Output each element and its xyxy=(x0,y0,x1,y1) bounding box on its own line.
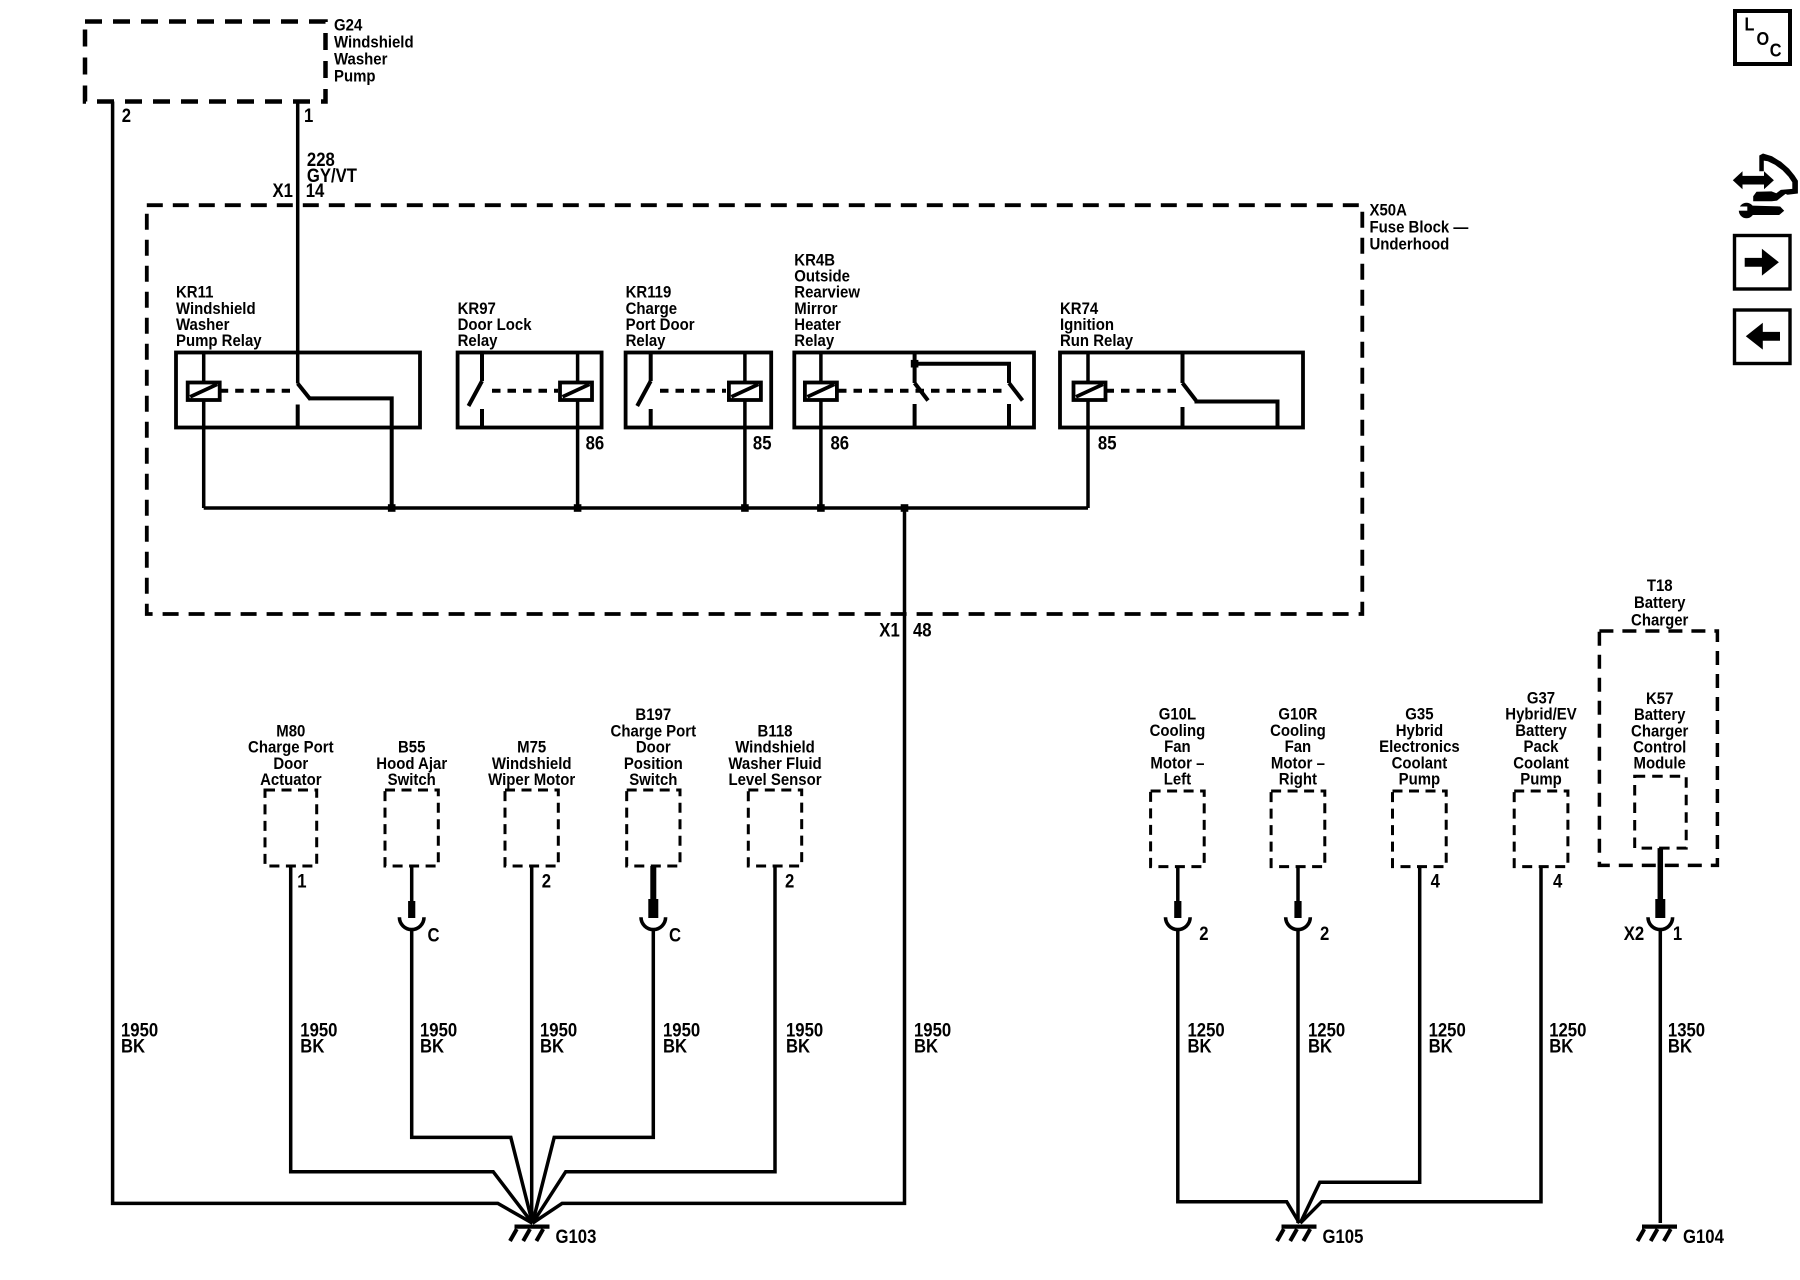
wire K57 to inline connector (heavy) xyxy=(1658,848,1664,901)
svg-text:BK: BK xyxy=(300,1036,324,1057)
svg-text:X2: X2 xyxy=(1624,923,1644,944)
svg-text:Relay: Relay xyxy=(626,332,666,350)
svg-text:Pump Relay: Pump Relay xyxy=(176,332,262,350)
svg-text:14: 14 xyxy=(306,180,325,201)
wire G24 pin1 to KR11 switch, circuit 228 GY/VT xyxy=(296,102,300,384)
svg-text:2: 2 xyxy=(122,105,131,126)
component G10L Cooling Fan Motor Left xyxy=(1150,706,1206,867)
svg-text:C: C xyxy=(428,925,440,946)
svg-text:48: 48 xyxy=(913,619,932,640)
relay KR11 Windshield Washer Pump Relay xyxy=(176,284,420,428)
svg-text:1: 1 xyxy=(297,871,306,892)
label 1250 BK (G10R wire) xyxy=(1308,1019,1345,1056)
svg-text:Battery: Battery xyxy=(1634,594,1686,612)
component G35 Hybrid Electronics Coolant Pump xyxy=(1379,706,1460,867)
wire B55 to inline connector xyxy=(410,866,414,901)
component G10R Cooling Fan Motor Right xyxy=(1270,706,1326,867)
wire KR11 coil pin to ground bus xyxy=(202,353,206,509)
component K57 Battery Charger Control Module (dashed box) xyxy=(1631,690,1688,848)
inline connector C of B55 xyxy=(399,901,439,946)
svg-text:Switch: Switch xyxy=(388,771,436,789)
wire B197 connector to G103 ground (1950 BK) xyxy=(533,931,654,1223)
wire G10L connector to G105 ground (1250 BK) xyxy=(1178,931,1300,1223)
svg-text:G105: G105 xyxy=(1323,1226,1364,1247)
wire K57 connector to G104 ground (1350 BK) xyxy=(1659,931,1663,1223)
svg-text:O: O xyxy=(1757,28,1770,49)
wire KR11 switch output to ground bus xyxy=(309,398,392,508)
connector X1 pin 14 xyxy=(273,180,325,201)
fuse block X50A Underhood (dashed box) xyxy=(147,205,1363,614)
svg-text:BK: BK xyxy=(1308,1036,1332,1057)
svg-text:BK: BK xyxy=(1549,1036,1573,1057)
svg-text:X1: X1 xyxy=(879,619,899,640)
component G37 Hybrid/EV Battery Pack Coolant Pump xyxy=(1505,690,1577,867)
ground G104 xyxy=(1638,1226,1724,1247)
svg-text:Left: Left xyxy=(1164,771,1192,789)
svg-text:Windshield: Windshield xyxy=(334,34,414,52)
wire KR97 pin 86 to ground bus xyxy=(576,353,580,509)
svg-text:T18: T18 xyxy=(1647,577,1673,595)
wire B118 to G103 ground (1950 BK) xyxy=(533,866,776,1223)
svg-text:Relay: Relay xyxy=(458,332,498,350)
wire KR74 pin 85 to ground bus xyxy=(1086,353,1090,509)
ground G105 xyxy=(1277,1226,1363,1247)
svg-text:BK: BK xyxy=(1429,1036,1453,1057)
svg-text:2: 2 xyxy=(1199,923,1208,944)
wire B55 connector to G103 ground (1950 BK) xyxy=(412,931,533,1223)
label 1950 BK (X1-48 wire) xyxy=(914,1019,951,1056)
junction dot KR11 output xyxy=(388,504,396,512)
label 1350 BK (K57 wire) xyxy=(1668,1019,1705,1056)
svg-text:Switch: Switch xyxy=(629,771,677,789)
component B118 Windshield Washer Fluid Level Sensor xyxy=(728,723,821,866)
wire G35 to G105 ground (1250 BK) xyxy=(1300,867,1419,1223)
svg-text:Relay: Relay xyxy=(794,332,834,350)
svg-text:Pump: Pump xyxy=(1520,771,1562,789)
svg-text:86: 86 xyxy=(831,432,850,453)
svg-text:BK: BK xyxy=(121,1036,145,1057)
svg-text:4: 4 xyxy=(1431,871,1440,892)
svg-text:Run Relay: Run Relay xyxy=(1060,332,1133,350)
wire G10R connector to G105 ground (1250 BK) xyxy=(1296,931,1300,1223)
label 1950 BK (B118 wire) xyxy=(786,1019,823,1056)
component T18 Battery Charger (dashed box) xyxy=(1599,577,1717,865)
relay KR97 Door Lock Relay xyxy=(458,300,602,428)
svg-text:BK: BK xyxy=(786,1036,810,1057)
wire G10R to inline connector xyxy=(1296,867,1300,901)
icon navigate arrows and wrench xyxy=(1733,154,1798,219)
svg-text:BK: BK xyxy=(1668,1036,1692,1057)
icon arrow-left box xyxy=(1735,310,1791,364)
label G24 xyxy=(334,17,414,86)
svg-text:BK: BK xyxy=(420,1036,444,1057)
svg-text:C: C xyxy=(669,925,681,946)
junction dot X1-48 feed xyxy=(901,504,909,512)
wire ground bus inside fuse block xyxy=(204,506,1088,510)
svg-text:L: L xyxy=(1745,14,1755,35)
svg-text:1: 1 xyxy=(1673,923,1682,944)
svg-text:4: 4 xyxy=(1553,871,1562,892)
svg-text:Underhood: Underhood xyxy=(1370,236,1450,254)
svg-text:Pump: Pump xyxy=(334,68,376,86)
relay KR119 Charge Port Door Relay xyxy=(626,284,772,428)
wire M75 to G103 ground (1950 BK) xyxy=(530,866,534,1223)
inline connector pin 2 of G10R xyxy=(1286,901,1330,944)
wire X1-48 to G103 ground (1950 BK) xyxy=(533,508,905,1223)
svg-text:BK: BK xyxy=(914,1036,938,1057)
svg-text:G104: G104 xyxy=(1683,1226,1724,1247)
ground G103 xyxy=(510,1226,596,1247)
svg-text:Level Sensor: Level Sensor xyxy=(728,771,821,789)
svg-text:Wiper Motor: Wiper Motor xyxy=(488,771,575,789)
label 228 GY/VT xyxy=(307,149,357,186)
svg-text:Right: Right xyxy=(1279,771,1318,789)
svg-text:G24: G24 xyxy=(334,17,362,35)
svg-text:X50A: X50A xyxy=(1370,202,1408,220)
svg-text:86: 86 xyxy=(586,432,605,453)
relay KR74 Ignition Run Relay xyxy=(1060,300,1303,428)
label 1250 BK (G37 wire) xyxy=(1549,1019,1586,1056)
label 1950 BK (M75 wire) xyxy=(540,1019,577,1056)
wire KR119 pin 85 to ground bus xyxy=(743,353,747,509)
label X50A Fuse Block Underhood xyxy=(1370,202,1469,254)
component B197 Charge Port Door Position Switch xyxy=(611,706,697,866)
svg-text:85: 85 xyxy=(753,432,772,453)
label 1950 BK (B55 wire) xyxy=(420,1019,457,1056)
relay KR4B Outside Rearview Mirror Heater Relay xyxy=(794,252,1034,428)
label 1250 BK (G10L wire) xyxy=(1188,1019,1225,1056)
component B55 Hood Ajar Switch xyxy=(376,739,447,866)
svg-text:BK: BK xyxy=(663,1036,687,1057)
component M80 Charge Port Door Actuator xyxy=(248,723,334,866)
svg-text:2: 2 xyxy=(542,871,551,892)
wire M80 to G103 ground (1950 BK) xyxy=(291,866,533,1223)
icon arrow-right box xyxy=(1735,236,1791,290)
svg-text:BK: BK xyxy=(1188,1036,1212,1057)
svg-text:2: 2 xyxy=(1320,923,1329,944)
svg-text:Fuse Block —: Fuse Block — xyxy=(1370,219,1469,237)
svg-text:Actuator: Actuator xyxy=(260,771,321,789)
wire B197 to inline connector (heavy) xyxy=(650,866,656,901)
inline connector pin 2 of G10L xyxy=(1166,901,1209,944)
svg-text:Washer: Washer xyxy=(334,51,387,69)
component G24 Windshield Washer Pump (dashed box) xyxy=(85,22,326,102)
label 1250 BK (G35 wire) xyxy=(1429,1019,1466,1056)
component M75 Windshield Wiper Motor xyxy=(488,739,575,866)
junction dot KR97 xyxy=(574,504,582,512)
svg-text:C: C xyxy=(1770,40,1782,61)
svg-text:Charger: Charger xyxy=(1631,612,1688,630)
connector X1 pin 48 xyxy=(879,619,931,640)
inline connector X2 pin 1 of K57 xyxy=(1624,899,1683,944)
inline connector C of B197 xyxy=(641,899,681,946)
svg-text:X1: X1 xyxy=(273,180,293,201)
wire KR4B pin 86 to ground bus xyxy=(819,353,823,509)
wire G24 pin2 to G103 ground (1950 BK) xyxy=(113,102,533,1224)
svg-text:Module: Module xyxy=(1634,755,1686,773)
junction dot KR4B xyxy=(817,504,825,512)
label 1950 BK (B197 wire) xyxy=(663,1019,700,1056)
icon LOC box xyxy=(1735,11,1790,64)
wire G10L to inline connector xyxy=(1176,867,1180,901)
wire G37 to G105 ground (1250 BK) xyxy=(1300,867,1541,1224)
label 1950 BK (G24 pin2 wire) xyxy=(121,1019,158,1056)
svg-text:Pump: Pump xyxy=(1399,771,1441,789)
svg-text:1: 1 xyxy=(304,105,313,126)
svg-text:BK: BK xyxy=(540,1036,564,1057)
label 1950 BK (M80 wire) xyxy=(300,1019,337,1056)
svg-text:2: 2 xyxy=(785,871,794,892)
svg-text:G103: G103 xyxy=(556,1226,597,1247)
svg-text:85: 85 xyxy=(1098,432,1117,453)
junction dot KR119 xyxy=(741,504,749,512)
